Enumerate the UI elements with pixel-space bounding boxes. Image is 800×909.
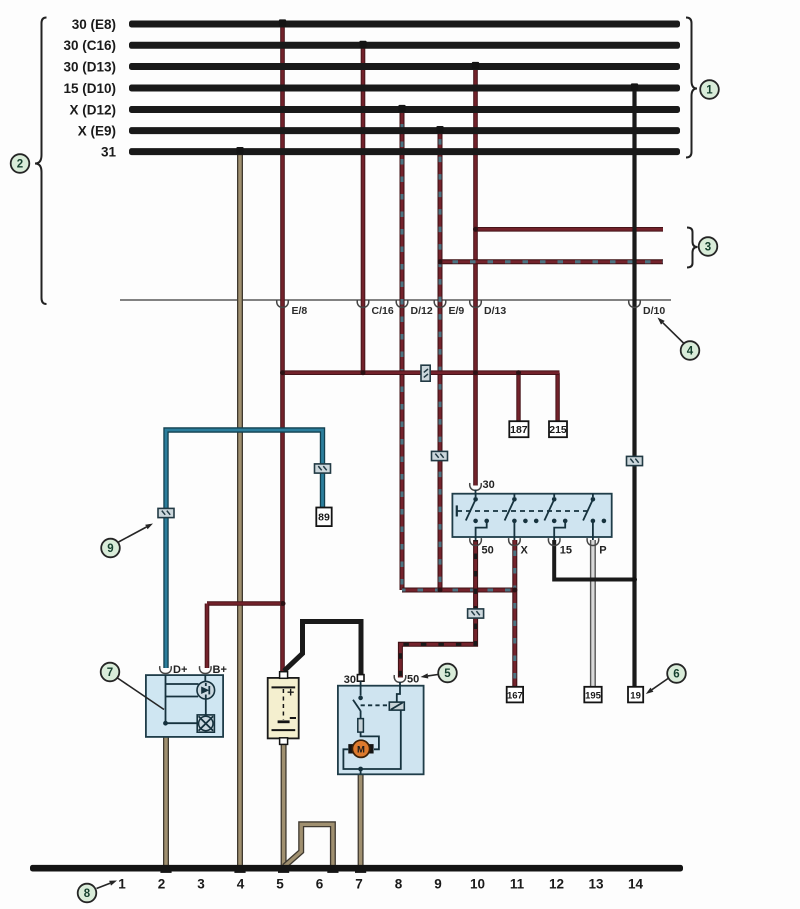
svg-text:1: 1: [118, 877, 126, 892]
svg-text:X: X: [521, 545, 529, 557]
svg-text:2: 2: [17, 159, 23, 171]
svg-text:E/8: E/8: [292, 305, 308, 317]
svg-text:3: 3: [197, 877, 205, 892]
svg-text:195: 195: [585, 690, 602, 701]
svg-text:30: 30: [483, 479, 495, 491]
svg-text:13: 13: [588, 877, 604, 892]
svg-text:30 (E8): 30 (E8): [72, 17, 116, 32]
svg-text:D+: D+: [173, 664, 187, 676]
svg-text:M: M: [357, 745, 365, 756]
svg-text:15 (D10): 15 (D10): [63, 81, 116, 96]
svg-text:9: 9: [107, 543, 113, 555]
svg-text:30: 30: [344, 674, 356, 686]
svg-text:89: 89: [318, 512, 330, 524]
svg-text:X (E9): X (E9): [78, 123, 116, 138]
svg-text:10: 10: [470, 877, 485, 892]
svg-text:12: 12: [549, 877, 564, 892]
svg-text:3: 3: [705, 242, 711, 254]
svg-text:8: 8: [84, 888, 91, 900]
svg-text:1: 1: [706, 85, 713, 97]
svg-text:7: 7: [107, 667, 113, 679]
svg-text:4: 4: [237, 877, 245, 892]
svg-text:50: 50: [407, 674, 419, 686]
svg-text:7: 7: [355, 877, 363, 892]
svg-text:5: 5: [276, 877, 284, 892]
svg-text:187: 187: [510, 424, 528, 436]
svg-text:+: +: [287, 686, 294, 700]
svg-text:D/12: D/12: [411, 305, 433, 317]
svg-text:B+: B+: [213, 664, 227, 676]
svg-text:19: 19: [630, 690, 641, 701]
svg-text:167: 167: [507, 690, 523, 701]
svg-text:D/13: D/13: [484, 305, 506, 317]
svg-text:14: 14: [628, 877, 644, 892]
svg-text:15: 15: [560, 545, 572, 557]
svg-text:9: 9: [434, 877, 442, 892]
svg-text:D/10: D/10: [643, 305, 665, 317]
svg-text:5: 5: [444, 668, 451, 680]
svg-text:6: 6: [673, 669, 679, 681]
svg-text:2: 2: [158, 877, 166, 892]
svg-text:X (D12): X (D12): [69, 102, 116, 117]
svg-text:P: P: [599, 545, 606, 557]
svg-text:215: 215: [549, 424, 567, 436]
svg-text:31: 31: [101, 144, 117, 159]
svg-text:4: 4: [687, 346, 694, 358]
svg-text:6: 6: [316, 877, 324, 892]
svg-text:30 (D13): 30 (D13): [63, 59, 116, 74]
svg-text:8: 8: [395, 877, 403, 892]
svg-text:11: 11: [510, 877, 525, 892]
svg-text:50: 50: [482, 545, 494, 557]
svg-text:30 (C16): 30 (C16): [63, 38, 116, 53]
svg-text:E/9: E/9: [449, 305, 465, 317]
svg-text:C/16: C/16: [372, 305, 394, 317]
